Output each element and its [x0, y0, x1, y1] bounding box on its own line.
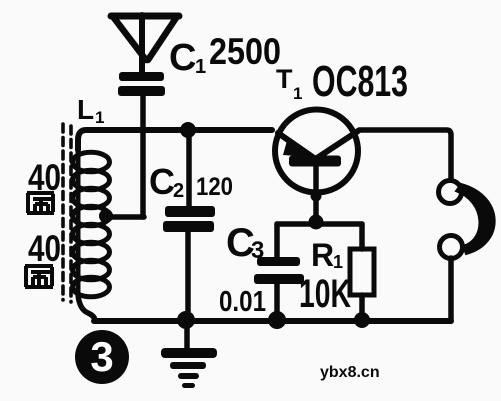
label R1	[311, 237, 343, 273]
svg-text:40: 40	[28, 228, 61, 269]
svg-text:ybx8.cn: ybx8.cn	[320, 364, 380, 381]
wire: C2 bottom lead	[185, 232, 191, 320]
inductor L1 (8 turns)	[73, 148, 110, 297]
earphone body crescent	[456, 184, 495, 254]
transistor T1 circle	[275, 110, 358, 193]
earphone bottom terminal	[440, 236, 463, 259]
capacitor C3	[254, 257, 304, 284]
svg-text:1: 1	[195, 56, 206, 78]
glyph 匝 lower	[25, 266, 53, 287]
svg-text:1: 1	[293, 84, 302, 103]
wire: C3 top lead	[274, 224, 280, 258]
svg-text:L: L	[77, 94, 94, 125]
label C2 120	[149, 161, 233, 202]
wire: R1 bottom lead	[359, 295, 365, 319]
label C3	[226, 221, 264, 265]
transistor collector line	[317, 131, 358, 158]
node: ground junction	[177, 311, 195, 329]
svg-text:2500: 2500	[209, 31, 281, 72]
node: C3 bottom junction	[268, 311, 286, 329]
wire: earphone bottom lead to bottom rail	[448, 258, 454, 321]
antenna	[111, 15, 179, 74]
label C1 2500	[169, 31, 281, 79]
svg-text:T: T	[276, 64, 293, 94]
figure number 3 (circled)	[75, 330, 129, 384]
svg-text:10K: 10K	[299, 272, 351, 316]
node: emitter exit dot	[311, 191, 322, 202]
wire: bottom rail	[94, 318, 451, 324]
wire: ground lead	[184, 321, 190, 351]
svg-text:0.01: 0.01	[219, 286, 266, 318]
glyph 匝 upper	[27, 193, 54, 213]
wire: base lead down	[313, 166, 319, 221]
label L1	[77, 94, 104, 127]
ground symbol	[161, 348, 217, 388]
wire: top rail left (L1 top to transistor base/emitter side)	[78, 130, 272, 150]
svg-text:3: 3	[90, 333, 113, 380]
svg-text:C: C	[149, 161, 175, 202]
label T1 OC813	[276, 57, 408, 106]
svg-text:120: 120	[196, 173, 233, 201]
node: coil tap junction	[99, 209, 113, 223]
capacitor C1	[118, 72, 165, 96]
ferrite core dashed lines	[63, 124, 71, 302]
wire: C1 bottom lead down to coil tap (crosses top rail)	[140, 96, 146, 217]
svg-text:1: 1	[95, 108, 104, 127]
wire: R1 top lead	[359, 224, 365, 249]
wire: C3 bottom lead	[274, 284, 280, 319]
svg-text:OC813: OC813	[312, 57, 408, 106]
wire: tap horizontal	[106, 214, 144, 220]
svg-text:R: R	[311, 237, 334, 273]
earphone top terminal	[439, 181, 462, 204]
node: R1 bottom junction	[354, 312, 370, 328]
svg-text:C: C	[169, 37, 196, 79]
node: base bottom junction	[309, 215, 324, 230]
transistor base bar	[289, 156, 341, 167]
wire: C2 top lead	[186, 130, 192, 207]
svg-text:1: 1	[333, 252, 343, 272]
capacitor C2	[163, 206, 215, 232]
resistor R1 body	[350, 249, 374, 295]
node: C2 top junction	[180, 122, 196, 138]
wire: C3/R1 top horizontal	[277, 221, 362, 227]
svg-text:2: 2	[173, 180, 184, 202]
wire: top rail right (collector to earphone)	[359, 130, 451, 180]
svg-text:3: 3	[251, 237, 264, 264]
wire: coil bottom to bottom rail	[78, 294, 95, 321]
transistor emitter line with arrow	[278, 133, 314, 158]
